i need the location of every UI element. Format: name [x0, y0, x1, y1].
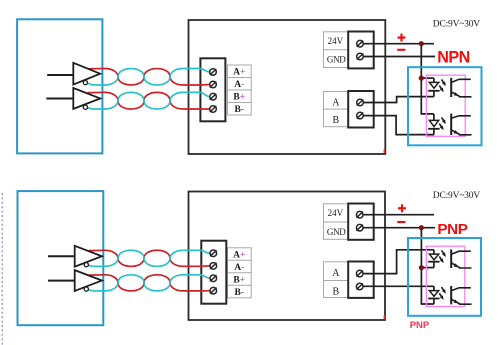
- A/B screw terminal block (top): [348, 91, 374, 128]
- svg-text:DC:9V~30V: DC:9V~30V: [433, 20, 480, 30]
- minus mark (bottom): [397, 221, 405, 223]
- plus mark (top): [398, 36, 406, 38]
- optocoupler outer box (bottom): [408, 238, 481, 316]
- line driver U4 (bottom): [48, 280, 75, 282]
- 24V/GND screw terminal block (bottom): [348, 204, 374, 240]
- line driver U3 (bottom): [48, 255, 75, 257]
- screw A- (bottom): [210, 263, 217, 270]
- svg-text:B-: B-: [235, 105, 245, 115]
- svg-text:A-: A-: [234, 263, 244, 273]
- screw B- (top): [210, 106, 217, 113]
- svg-text:24V: 24V: [328, 36, 344, 46]
- svg-text:DC:9V~30V: DC:9V~30V: [433, 191, 480, 201]
- twisted pair channel A (bottom): [89, 250, 211, 266]
- wire +24V (top): [360, 43, 434, 45]
- optocoupler inner box (top): [426, 75, 465, 136]
- optocoupler U7 (bottom): [433, 250, 435, 254]
- svg-text:A+: A+: [233, 250, 245, 260]
- twisted pair channel A (top): [88, 69, 211, 86]
- terminal label cells A+/A-/B+/B- (top): [228, 65, 252, 115]
- wire U7 cathode to rail (bottom): [421, 267, 434, 269]
- screw A- (top): [210, 81, 217, 88]
- wire A signal to U5 cathode (top): [360, 97, 434, 103]
- svg-text:PNP: PNP: [410, 320, 430, 331]
- svg-text:B: B: [333, 115, 340, 126]
- wire GND rail down to optocouplers (bottom): [421, 228, 434, 304]
- svg-text:A-: A-: [234, 80, 244, 90]
- screw B+ (bottom): [210, 275, 217, 282]
- svg-text:PNP: PNP: [437, 221, 467, 238]
- twisted pair channel B (top): [88, 92, 211, 109]
- svg-text:B: B: [333, 287, 340, 298]
- screw 24V (bottom): [356, 211, 363, 218]
- svg-text:GND: GND: [327, 55, 346, 65]
- svg-text:24V: 24V: [328, 208, 344, 218]
- encoder box (top): [17, 19, 102, 153]
- optocoupler outer box (top): [408, 67, 482, 145]
- junction node U7 cathode (bottom): [419, 265, 424, 270]
- A/B label box (top): [324, 92, 349, 127]
- screw GND (top): [357, 53, 364, 60]
- wire B signal to U6 cathode (top): [360, 116, 434, 135]
- terminal label cells A+/A-/B+/B- (bottom): [228, 248, 252, 298]
- junction node +24V (top): [419, 41, 424, 46]
- 24V/GND label box (top): [324, 32, 349, 68]
- screw A (bottom): [356, 270, 363, 277]
- line driver U1 (top): [47, 74, 73, 76]
- 24V/GND label box (bottom): [324, 204, 349, 240]
- page margin dotted line: [1, 193, 3, 345]
- wire B signal to U8 anode (bottom): [360, 285, 434, 287]
- junction node GND (bottom): [419, 225, 424, 230]
- junction node U5 anode (top): [419, 76, 424, 81]
- optocoupler U8 (bottom): [433, 286, 435, 290]
- wire +24V (bottom): [360, 214, 434, 216]
- screw A+ (top): [210, 69, 217, 76]
- wire anode branch optocoupler U5 (top): [421, 77, 434, 79]
- encoder box (bottom): [18, 191, 104, 325]
- svg-text:A: A: [332, 268, 340, 279]
- svg-text:GND: GND: [327, 227, 346, 237]
- svg-text:B-: B-: [235, 288, 245, 298]
- svg-text:A: A: [332, 98, 340, 109]
- A/B label box (bottom): [324, 262, 349, 298]
- driver/receiver device box (bottom): [189, 192, 386, 321]
- A+..B- screw terminal block (top): [200, 58, 225, 121]
- optocoupler inner box (bottom): [426, 246, 464, 306]
- wire +24V rail down to optocouplers (top): [421, 44, 434, 114]
- optocoupler U6 (top): [433, 114, 435, 121]
- optocoupler U5 (top): [433, 78, 435, 82]
- line driver U2 (top): [46, 98, 73, 100]
- plus mark (bottom): [398, 207, 406, 209]
- screw A (top): [357, 99, 364, 106]
- svg-text:B+: B+: [233, 93, 245, 103]
- driver/receiver device box (top): [189, 20, 386, 154]
- svg-text:A+: A+: [233, 68, 245, 78]
- twisted pair channel B (bottom): [89, 275, 211, 291]
- screw B (bottom): [356, 283, 363, 290]
- A+..B- screw terminal block (bottom): [201, 241, 226, 304]
- screw GND (bottom): [356, 224, 363, 231]
- red artifact tick (bottom device corner): [383, 315, 385, 319]
- screw A+ (bottom): [210, 250, 217, 257]
- minus mark (top): [397, 49, 405, 51]
- 24V/GND screw terminal block (top): [348, 32, 374, 69]
- screw 24V (top): [357, 40, 364, 47]
- screw B (top): [357, 112, 364, 119]
- red artifact tick (top device corner): [383, 149, 385, 153]
- screw B- (bottom): [210, 287, 217, 294]
- wire GND (bottom): [360, 227, 435, 229]
- wire GND (top): [360, 56, 435, 58]
- A/B screw terminal block (bottom): [348, 262, 374, 298]
- svg-text:B+: B+: [233, 275, 245, 285]
- screw B+ (top): [210, 93, 217, 100]
- svg-text:NPN: NPN: [437, 49, 470, 67]
- wire A signal to U7 anode (bottom): [360, 250, 434, 274]
